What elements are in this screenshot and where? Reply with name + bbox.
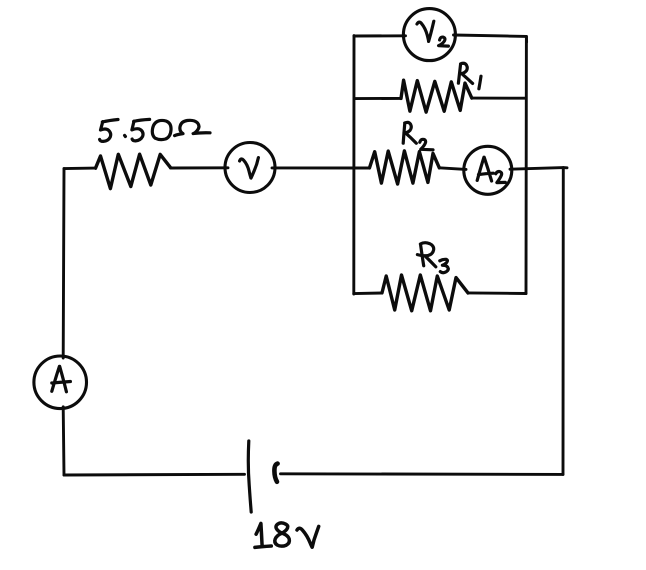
resistor 5.50ohm <box>96 154 171 188</box>
decimal point <box>123 135 127 136</box>
wire: R1 branch right <box>472 97 526 100</box>
value label 5.50Ω <box>100 119 210 141</box>
resistor R1 <box>401 80 472 112</box>
label R1 <box>458 63 481 89</box>
value label 18V <box>255 523 319 548</box>
wire: R3 branch right <box>468 291 526 295</box>
digit 5 <box>132 119 150 141</box>
wire: box top left segment <box>354 34 406 37</box>
wire: R2 to ammeter A2 <box>439 168 466 170</box>
wire: resistor to voltmeter V1 <box>171 166 229 169</box>
wire: box top right segment <box>454 35 527 42</box>
wire: outer right vertical <box>562 168 565 475</box>
wire: left vertical lower <box>62 407 66 475</box>
digit 0 <box>152 120 171 139</box>
wire: R1 branch left <box>354 97 401 100</box>
ammeter A1 <box>34 356 87 409</box>
voltmeter V2 <box>403 9 455 61</box>
battery 18V <box>248 441 277 512</box>
voltmeter V1 <box>225 143 275 193</box>
digit 5 <box>100 120 118 142</box>
digit 8 <box>275 523 290 546</box>
wire: parallel box left edge <box>352 36 355 294</box>
omega symbol <box>175 120 210 135</box>
wire: bottom left segment from battery <box>64 473 245 477</box>
label R2 <box>403 122 433 149</box>
digit 1 <box>255 523 271 547</box>
wire: box right edge <box>525 36 528 293</box>
resistor R2 <box>370 151 440 184</box>
wire: voltmeter V1 to R2 (crosses box left edge) <box>272 166 370 169</box>
wire: left vertical upper <box>62 169 66 358</box>
wire: R3 branch left <box>354 292 382 296</box>
letter V <box>297 526 319 547</box>
ammeter A2 <box>464 146 512 194</box>
wire: bottom right segment to battery <box>281 472 564 476</box>
wire: ammeter A2 to right outer corner <box>510 168 567 170</box>
wire: main horizontal from top-left corner to resistor <box>64 167 96 170</box>
resistor R3 <box>382 275 468 311</box>
label R3 <box>417 243 448 273</box>
